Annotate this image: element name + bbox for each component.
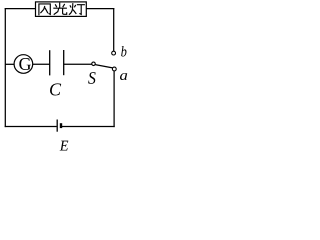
wire right side: top corner down to contact b xyxy=(113,8,115,51)
wire left side xyxy=(4,8,6,127)
battery E long plate xyxy=(56,120,58,132)
label C xyxy=(50,83,61,95)
wire bottom-left segment xyxy=(5,126,57,128)
wire capacitor to switch pivot xyxy=(64,63,92,65)
galvanometer G circle xyxy=(14,55,33,74)
wire galvanometer to capacitor xyxy=(33,63,50,65)
label S xyxy=(88,72,95,84)
wire top-right segment xyxy=(86,8,114,10)
contact a xyxy=(112,67,116,71)
galvanometer letter G xyxy=(19,58,31,70)
capacitor C right plate xyxy=(63,50,65,75)
wire top-left segment xyxy=(5,8,36,10)
label E xyxy=(60,141,69,151)
wire right side: contact a down to bottom corner xyxy=(113,71,115,127)
switch S blade xyxy=(95,65,112,68)
switch S pivot contact xyxy=(92,62,96,66)
contact b xyxy=(112,51,116,55)
flash lamp label: character 闪 xyxy=(39,4,50,16)
label a xyxy=(120,73,127,80)
capacitor C left plate xyxy=(49,50,51,75)
label b xyxy=(121,46,126,57)
flash lamp label: character 光 xyxy=(53,3,67,15)
flash lamp label: character 灯 xyxy=(69,3,85,15)
flash lamp box xyxy=(36,2,87,17)
wire bottom-right segment xyxy=(62,126,115,128)
battery E short plate xyxy=(60,123,62,128)
wire middle: left border to galvanometer xyxy=(5,63,14,65)
